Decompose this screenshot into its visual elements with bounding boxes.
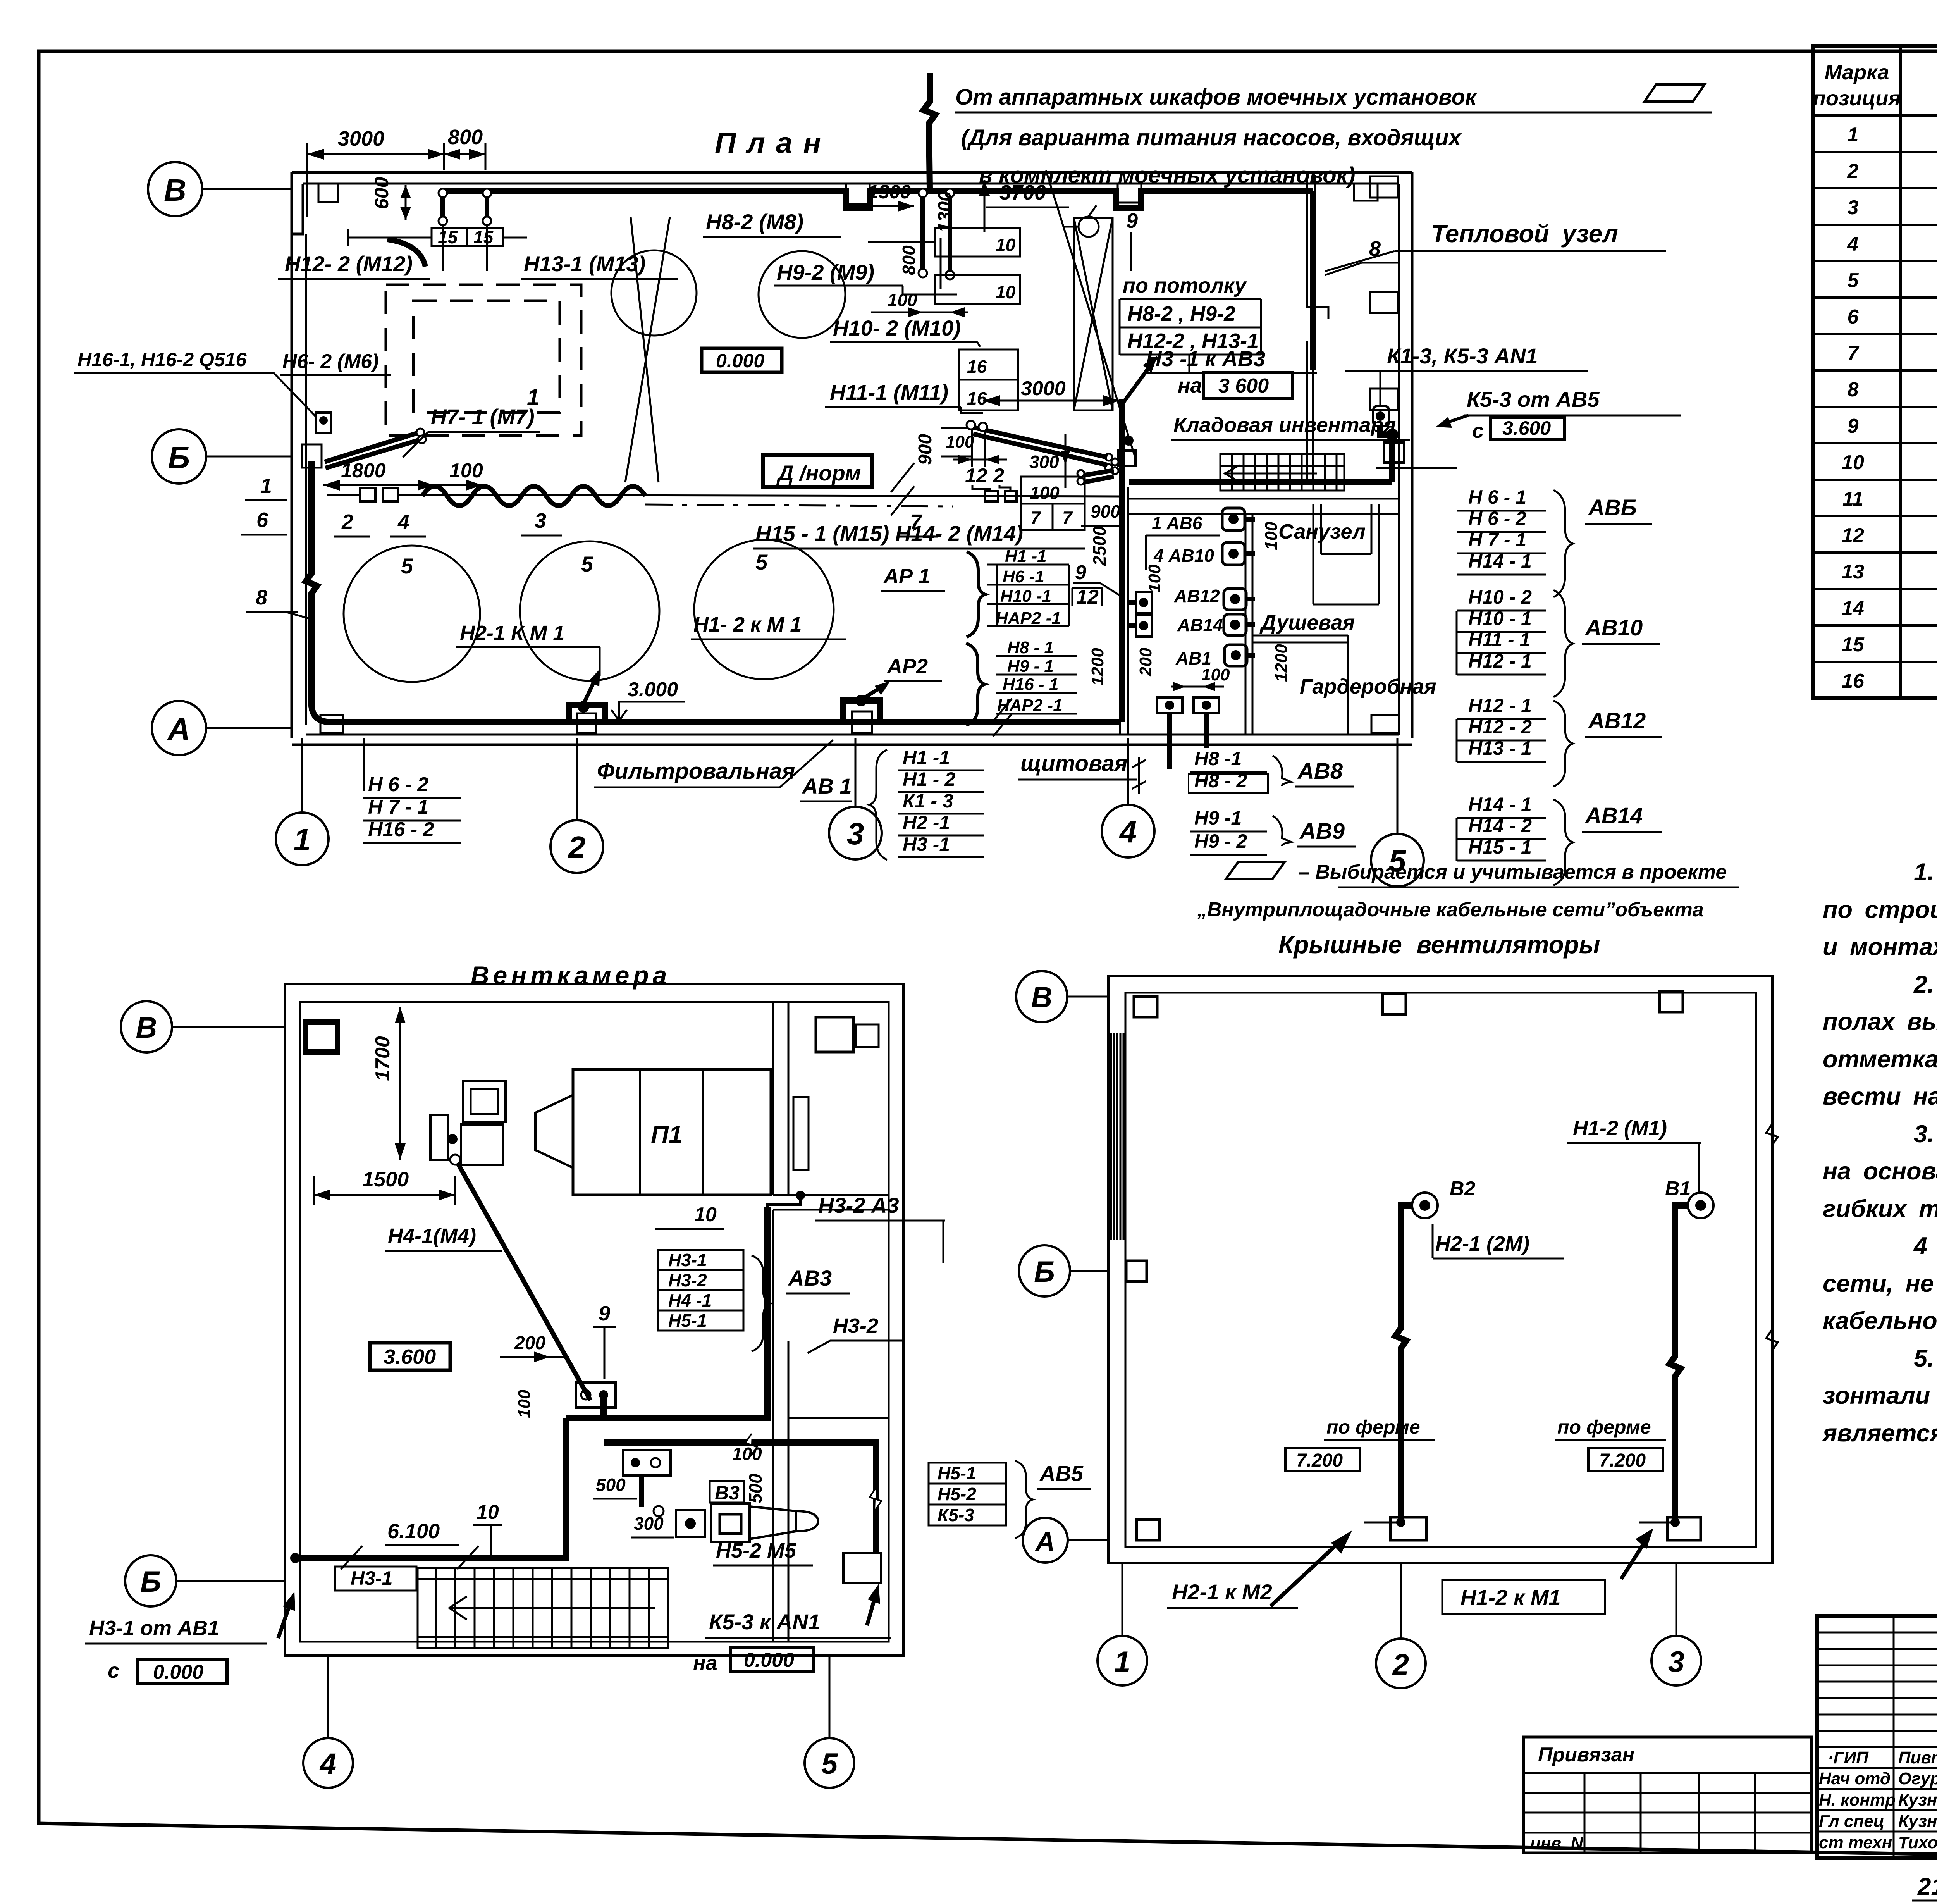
svg-text:13: 13 — [1842, 561, 1864, 583]
kladovaya walls — [1128, 498, 1399, 500]
svg-text:11: 11 — [1842, 488, 1863, 510]
svg-text:Н 6 - 2: Н 6 - 2 — [368, 773, 428, 796]
svg-text:1 АВ6: 1 АВ6 — [1152, 513, 1202, 533]
cable kladovaya — [1129, 425, 1392, 482]
svg-text:1200: 1200 — [1088, 648, 1107, 686]
thick cable right vertical — [1310, 191, 1316, 370]
svg-text:Н9 - 1: Н9 - 1 — [1007, 657, 1054, 676]
svg-text:2. Раскладку труб для элек: 2. Раскладку труб для электропроводок в — [1913, 971, 1937, 998]
svg-text:·ГИП: ·ГИП — [1828, 1748, 1869, 1767]
svg-text:5: 5 — [1848, 269, 1859, 292]
svg-text:3 600: 3 600 — [1218, 375, 1269, 397]
svg-text:Н2-1 (2М): Н2-1 (2М) — [1435, 1232, 1529, 1255]
top-left wall stub — [292, 172, 303, 234]
svg-text:15: 15 — [473, 227, 494, 247]
AB6 right stack — [1468, 486, 1532, 572]
svg-text:4: 4 — [319, 1747, 336, 1780]
cable drop pair 1 — [443, 194, 487, 219]
svg-text:16: 16 — [1842, 670, 1865, 692]
cable down left — [295, 1418, 566, 1558]
svg-text:АВ14: АВ14 — [1584, 803, 1643, 828]
svg-text:План: План — [715, 127, 832, 160]
sanuzel inner walls — [1313, 504, 1379, 604]
elbow — [387, 239, 425, 267]
svg-text:6: 6 — [256, 508, 268, 532]
svg-text:инв. N: инв. N — [1530, 1834, 1583, 1853]
svg-text:5: 5 — [755, 550, 768, 574]
svg-text:8: 8 — [1848, 379, 1859, 401]
pinch mark — [891, 463, 914, 515]
bubble 3 roof — [1651, 1636, 1701, 1685]
N mark — [1132, 757, 1146, 794]
teplo uzel left wall — [1307, 175, 1328, 319]
svg-text:В: В — [1031, 981, 1053, 1014]
svg-text:Н3-1 от АВ1: Н3-1 от АВ1 — [89, 1617, 219, 1640]
svg-text:АВ12: АВ12 — [1174, 586, 1220, 606]
svg-text:Н8 - 1: Н8 - 1 — [1007, 638, 1054, 657]
svg-text:Н9-2 (М9): Н9-2 (М9) — [777, 260, 874, 284]
bottom cable pilaster jogs — [569, 701, 880, 722]
bubble 5 vent — [805, 1738, 854, 1788]
svg-text:Гл спец: Гл спец — [1819, 1812, 1884, 1831]
svg-text:3: 3 — [847, 816, 864, 851]
svg-text:4: 4 — [1847, 233, 1859, 255]
svg-text:Тепловой узел: Тепловой узел — [1431, 220, 1618, 248]
svg-text:позиция: позиция — [1813, 87, 1901, 110]
svg-text:7: 7 — [1848, 342, 1860, 365]
teplo uzel pilasters — [1370, 176, 1398, 198]
svg-text:Н1 - 2: Н1 - 2 — [903, 768, 955, 790]
svg-text:Н6 -1: Н6 -1 — [1003, 567, 1044, 586]
svg-text:1300: 1300 — [868, 181, 911, 203]
svg-text:3: 3 — [1668, 1646, 1684, 1678]
bottom wall — [292, 744, 1412, 746]
bubble 3 plan — [829, 807, 882, 859]
bubble B vent — [121, 1001, 172, 1052]
svg-text:Н 7 - 1: Н 7 - 1 — [368, 796, 428, 818]
connector labels — [1152, 513, 1223, 668]
svg-text:4 Электрооборудование и соо: 4 Электрооборудование и соответствующие — [1913, 1233, 1937, 1260]
svg-text:9: 9 — [1848, 415, 1859, 437]
grid bubble B plan — [148, 162, 202, 216]
grid bubble Б roof — [1019, 1245, 1070, 1296]
svg-text:3: 3 — [535, 509, 546, 532]
svg-text:Огурцов: Огурцов — [1898, 1769, 1937, 1788]
svg-text:с: с — [1472, 419, 1484, 442]
svg-text:Н1 -1: Н1 -1 — [903, 747, 950, 768]
thin leader line — [399, 495, 1120, 496]
svg-text:АВ10: АВ10 — [1584, 615, 1643, 640]
svg-text:Н11-1 (М11): Н11-1 (М11) — [830, 380, 948, 405]
svg-text:4: 4 — [397, 510, 409, 534]
svg-text:АВ3: АВ3 — [788, 1266, 832, 1290]
svg-text:Н12 - 1: Н12 - 1 — [1468, 695, 1532, 716]
bottom right cable box — [843, 1553, 881, 1583]
feeder cable drop — [924, 73, 935, 189]
wavy flexible cable — [422, 486, 645, 506]
svg-text:100: 100 — [1262, 522, 1281, 550]
svg-text:Душевая: Душевая — [1259, 611, 1355, 634]
bubble 5 plan — [1371, 834, 1424, 887]
crossed circle fan — [611, 250, 697, 336]
svg-text:по потолку: по потолку — [1123, 274, 1247, 297]
svg-text:А: А — [167, 712, 190, 746]
P1 air unit — [573, 1069, 771, 1195]
svg-text:3.600: 3.600 — [384, 1345, 436, 1369]
svg-text:Кузнецов: Кузнецов — [1898, 1790, 1937, 1809]
svg-text:0.000: 0.000 — [744, 1649, 794, 1672]
svg-text:АВ14: АВ14 — [1177, 615, 1223, 635]
svg-text:1: 1 — [1114, 1646, 1130, 1678]
partition horizontal — [773, 1194, 889, 1196]
svg-text:8: 8 — [1369, 237, 1381, 260]
grid bubble А roof — [1023, 1518, 1068, 1563]
svg-text:16: 16 — [967, 356, 987, 377]
title block outer — [1817, 1616, 1937, 1858]
sanuzel partition vertical — [1245, 514, 1247, 735]
fan circle M9 — [759, 251, 845, 338]
crossed tall rect — [1074, 218, 1113, 410]
svg-text:„Внутриплощадочные кабельные с: „Внутриплощадочные кабельные сети”объект… — [1197, 899, 1704, 921]
roof plan inner wall — [1125, 993, 1756, 1547]
svg-text:Н2-1 К М 1: Н2-1 К М 1 — [460, 621, 564, 645]
svg-text:2: 2 — [1847, 160, 1859, 182]
cable diagonal — [450, 1155, 460, 1165]
roof plan outer wall — [1108, 976, 1772, 1563]
svg-text:Н. контр: Н. контр — [1819, 1790, 1896, 1809]
right partition wall — [772, 1002, 774, 1195]
dushevaya partition — [1252, 635, 1348, 735]
small boxes pair — [1136, 592, 1152, 613]
svg-text:Н10- 2 (М10): Н10- 2 (М10) — [833, 316, 961, 340]
16 boxes — [959, 349, 1018, 410]
svg-text:на основании серии 5407-7: на основании серии 5407-7 „Устройство ко… — [1823, 1158, 1937, 1185]
svg-text:АР2: АР2 — [886, 655, 928, 678]
svg-text:9: 9 — [1126, 209, 1138, 232]
Б row pilaster — [302, 444, 322, 468]
kladovaya ladder — [1220, 454, 1344, 491]
svg-text:800: 800 — [899, 245, 919, 275]
svg-text:12: 12 — [1076, 586, 1099, 608]
svg-text:В2: В2 — [1450, 1178, 1476, 1200]
svg-text:12: 12 — [1842, 524, 1864, 547]
svg-text:1: 1 — [260, 474, 272, 498]
svg-text:К5-3 к АN1: К5-3 к АN1 — [709, 1610, 820, 1634]
svg-text:Н3 -1 к АВ3: Н3 -1 к АВ3 — [1146, 346, 1265, 371]
dashdot ceiling line — [645, 504, 953, 506]
svg-text:В: В — [136, 1011, 157, 1044]
svg-text:100: 100 — [946, 432, 974, 451]
svg-text:12 2: 12 2 — [965, 465, 1004, 487]
svg-text:АВ8: АВ8 — [1297, 759, 1343, 784]
svg-text:Н13-1 (М13): Н13-1 (М13) — [524, 251, 645, 276]
bottom wall connector boxes — [1157, 697, 1182, 713]
svg-text:на: на — [1178, 374, 1202, 397]
svg-text:К1-3, К5-3 АN1: К1-3, К5-3 АN1 — [1387, 344, 1538, 368]
svg-text:Н4 -1: Н4 -1 — [668, 1290, 712, 1310]
svg-text:1: 1 — [294, 822, 311, 857]
svg-text:вести на 100мм над отметк: вести на 100мм над отметкой чистого пола — [1823, 1083, 1937, 1110]
svg-text:21179-03 8: 21179-03 8 — [1917, 1873, 1937, 1900]
big tank circles — [344, 546, 480, 682]
svg-text:100: 100 — [1201, 665, 1230, 684]
svg-text:0.000: 0.000 — [716, 350, 764, 372]
svg-text:Н7- 1 (М7): Н7- 1 (М7) — [431, 405, 535, 429]
AB14 right stack — [1468, 794, 1532, 858]
cable to AZ box — [767, 1195, 800, 1207]
shchitovaya connector boxes — [1222, 508, 1247, 666]
svg-text:Н12- 2 (М12): Н12- 2 (М12) — [285, 251, 413, 276]
svg-text:по ферме: по ферме — [1557, 1416, 1651, 1438]
svg-text:4: 4 — [1119, 814, 1137, 849]
svg-text:0.000: 0.000 — [153, 1661, 203, 1684]
cable drop pair 2 — [923, 194, 950, 271]
svg-text:Н6- 2 (М6): Н6- 2 (М6) — [282, 350, 378, 373]
svg-text:Н8 -1: Н8 -1 — [1194, 748, 1242, 770]
right wall break marks — [1766, 1124, 1778, 1146]
svg-text:100: 100 — [449, 460, 483, 482]
svg-text:АР 1: АР 1 — [883, 565, 930, 588]
svg-text:Н9 -1: Н9 -1 — [1194, 807, 1242, 829]
svg-text:Н5-2 М5: Н5-2 М5 — [716, 1539, 796, 1562]
B3 fan unit — [654, 1506, 664, 1516]
bubble 2 roof — [1376, 1639, 1426, 1688]
AB12 right stack — [1468, 695, 1532, 759]
svg-text:по строительным конструкция: по строительным конструкциям, выполнить … — [1823, 896, 1937, 923]
svg-text:АВ9: АВ9 — [1299, 819, 1345, 844]
svg-text:– Выбирается и учитывается в п: – Выбирается и учитывается в проекте — [1299, 861, 1727, 883]
svg-text:на: на — [693, 1651, 717, 1675]
svg-text:16: 16 — [967, 388, 987, 408]
svg-text:900: 900 — [915, 434, 936, 465]
stairs — [418, 1568, 668, 1648]
thick cable shchitovaya riser — [1119, 399, 1125, 722]
svg-text:и монтажной полосой с шаг: и монтажной полосой с шагом не более 800… — [1823, 933, 1937, 961]
ventkamera outer wall — [285, 984, 903, 1656]
svg-text:3. Питание гибкого токоподв: 3. Питание гибкого токоподвода выполнить — [1914, 1121, 1937, 1148]
svg-text:2500: 2500 — [1089, 526, 1110, 566]
svg-text:Тихонов: Тихонов — [1898, 1833, 1937, 1852]
pilaster squares — [1126, 992, 1701, 1540]
dashed rect outer — [386, 285, 581, 436]
diagonal cable pair to B — [325, 433, 417, 462]
svg-text:5: 5 — [581, 552, 593, 576]
svg-text:Н9 - 2: Н9 - 2 — [1194, 830, 1247, 852]
svg-text:500: 500 — [596, 1475, 626, 1495]
top wall pilasters — [318, 184, 338, 202]
3.600 box — [370, 1343, 450, 1370]
cable horizontal — [566, 1207, 767, 1418]
svg-text:200: 200 — [1136, 647, 1155, 677]
svg-text:Н3-2 А3: Н3-2 А3 — [818, 1193, 899, 1217]
svg-text:1800: 1800 — [341, 460, 386, 482]
svg-text:100: 100 — [732, 1444, 762, 1464]
svg-text:3.000: 3.000 — [628, 678, 678, 701]
svg-text:5: 5 — [401, 554, 413, 578]
svg-text:Н8 - 2: Н8 - 2 — [1194, 770, 1247, 792]
label H3-1 — [335, 1567, 416, 1591]
svg-text:Б: Б — [140, 1565, 161, 1598]
svg-text:Н5-1: Н5-1 — [938, 1463, 976, 1483]
AB1 stack — [869, 750, 887, 860]
svg-text:14: 14 — [1842, 597, 1864, 620]
stack H6-2 H7-1 H16-2 — [368, 773, 434, 841]
svg-text:Н8-2 (М8): Н8-2 (М8) — [706, 210, 803, 234]
svg-text:Н2 -1: Н2 -1 — [903, 812, 950, 833]
cable tail boxes — [360, 488, 375, 501]
svg-text:Б: Б — [168, 440, 190, 475]
svg-text:Марка: Марка — [1825, 61, 1889, 84]
svg-text:Гардеробная: Гардеробная — [1300, 675, 1436, 698]
svg-text:500: 500 — [745, 1474, 766, 1503]
svg-text:800: 800 — [448, 126, 483, 149]
label H1-2 kM1 — [1442, 1580, 1605, 1614]
svg-text:1300: 1300 — [935, 191, 955, 232]
AB5 stack — [929, 1463, 1006, 1525]
legend parallelogram — [1226, 862, 1285, 879]
svg-text:Кузнецов: Кузнецов — [1898, 1812, 1937, 1831]
svg-text:7: 7 — [1030, 508, 1041, 528]
dashed rect inner — [413, 301, 560, 413]
svg-text:4 АВ10: 4 АВ10 — [1153, 546, 1214, 566]
junction box — [576, 1382, 616, 1408]
svg-text:2: 2 — [341, 510, 353, 534]
svg-text:9: 9 — [1075, 561, 1086, 584]
bubble 2 plan — [550, 820, 603, 873]
svg-text:Н16 - 2: Н16 - 2 — [368, 818, 434, 841]
svg-text:А: А — [1035, 1527, 1055, 1557]
top right boxes — [816, 1017, 853, 1052]
svg-text:АВ5: АВ5 — [1039, 1461, 1084, 1486]
svg-text:АВБ: АВБ — [1588, 495, 1637, 520]
svg-text:К1 - 3: К1 - 3 — [903, 790, 953, 812]
svg-text:2: 2 — [568, 830, 586, 864]
svg-text:7: 7 — [1062, 508, 1073, 528]
svg-text:сети, не используемые при: сети, не используемые при привязке, на п… — [1823, 1270, 1937, 1297]
svg-text:Н3 -1: Н3 -1 — [903, 833, 950, 855]
svg-text:10: 10 — [1842, 451, 1864, 474]
svg-text:П1: П1 — [651, 1121, 683, 1148]
svg-text:Санузел: Санузел — [1278, 520, 1366, 543]
svg-text:3: 3 — [1848, 196, 1859, 219]
svg-text:ст техн: ст техн — [1819, 1833, 1892, 1852]
svg-text:900: 900 — [1091, 501, 1120, 522]
svg-text:Н1- 2 к М 1: Н1- 2 к М 1 — [693, 613, 802, 636]
bubble 1 roof — [1098, 1636, 1147, 1685]
svg-text:отметках минус 100мм , 35: отметках минус 100мм , 3550мм , концы тр… — [1823, 1046, 1937, 1073]
svg-text:по ферме: по ферме — [1326, 1416, 1420, 1438]
svg-text:Н1-2 (М1): Н1-2 (М1) — [1573, 1117, 1667, 1140]
svg-text:В: В — [164, 173, 186, 207]
100 7 7 table — [1021, 477, 1085, 504]
bubble 4 plan — [1102, 805, 1154, 857]
svg-text:8: 8 — [256, 586, 267, 609]
svg-text:НАР2 -1: НАР2 -1 — [997, 696, 1063, 715]
thick cable left wall — [306, 461, 1120, 722]
svg-text:1: 1 — [1848, 124, 1859, 146]
svg-text:3700: 3700 — [999, 181, 1046, 204]
ventkamera inner wall — [300, 1002, 889, 1642]
svg-text:Н2-1 к М2: Н2-1 к М2 — [1172, 1580, 1272, 1604]
branch box — [623, 1450, 671, 1475]
svg-text:Н3-1: Н3-1 — [351, 1567, 392, 1589]
svg-text:Кладовая инвентаря: Кладовая инвентаря — [1173, 413, 1396, 437]
bubble 1 plan — [276, 813, 329, 865]
svg-text:гибких токоподводов к элект: гибких токоподводов к электроталям“. — [1823, 1195, 1937, 1222]
svg-text:с: с — [108, 1659, 119, 1682]
svg-text:Н8-2 , Н9-2: Н8-2 , Н9-2 — [1127, 302, 1235, 325]
svg-text:(Для варианта питания насосов,: (Для варианта питания насосов, входящих — [961, 125, 1462, 150]
K1-3 connector boxes — [1373, 406, 1389, 426]
left wall — [291, 234, 293, 738]
signature rows — [1817, 1767, 1937, 1769]
svg-text:Крышные вентиляторы: Крышные вентиляторы — [1278, 931, 1600, 959]
svg-text:АВ12: АВ12 — [1588, 708, 1646, 733]
svg-text:АВ 1: АВ 1 — [802, 774, 852, 798]
svg-text:Н10 -1: Н10 -1 — [1000, 587, 1051, 606]
svg-text:Н 6 - 1: Н 6 - 1 — [1468, 486, 1526, 508]
AB10 right stack — [1468, 586, 1532, 672]
table grid — [1813, 46, 1937, 698]
wall hatch left — [1111, 1033, 1123, 1240]
10 boxes — [935, 228, 1020, 257]
bottom wall pilasters — [320, 715, 343, 733]
connector cluster — [1105, 454, 1112, 461]
building top wall — [292, 171, 1412, 174]
svg-text:6.100: 6.100 — [387, 1520, 440, 1543]
svg-text:щитовая: щитовая — [1020, 751, 1128, 776]
svg-text:1. Крепление электрокабелей,: 1. Крепление электрокабелей, прокладывае… — [1914, 859, 1937, 886]
svg-text:Н4-1(М4): Н4-1(М4) — [388, 1224, 476, 1248]
svg-text:9: 9 — [599, 1302, 610, 1325]
svg-text:Н1-2 к М1: Н1-2 к М1 — [1460, 1585, 1561, 1610]
svg-text:300: 300 — [634, 1513, 664, 1534]
thick cable top — [443, 191, 1313, 208]
svg-text:10: 10 — [477, 1501, 499, 1524]
svg-text:К5-3: К5-3 — [938, 1505, 974, 1525]
diagonal cables right — [973, 427, 1107, 457]
svg-text:Б: Б — [1034, 1255, 1055, 1288]
grid bubble Б plan — [152, 429, 206, 484]
svg-text:Н3-1: Н3-1 — [668, 1250, 707, 1270]
stack H3-1..H5-1 — [658, 1250, 743, 1331]
bubble Б vent — [125, 1555, 176, 1606]
svg-text:7.200: 7.200 — [1599, 1450, 1646, 1471]
svg-text:1700: 1700 — [372, 1036, 394, 1081]
svg-text:100: 100 — [1030, 483, 1060, 503]
svg-text:зонтали от краев безнапорны: зонтали от краев безнапорных гидроциклон… — [1823, 1382, 1937, 1409]
svg-text:Н3-2: Н3-2 — [668, 1270, 707, 1290]
svg-text:10: 10 — [996, 282, 1016, 302]
svg-text:Н10 - 2: Н10 - 2 — [1468, 586, 1532, 608]
grid bubble В roof — [1016, 971, 1067, 1022]
svg-text:100: 100 — [1145, 564, 1164, 593]
svg-text:7.200: 7.200 — [1296, 1450, 1343, 1471]
svg-text:1200: 1200 — [1272, 644, 1291, 682]
svg-text:15: 15 — [438, 227, 458, 247]
svg-text:К5-3 от АВ5: К5-3 от АВ5 — [1467, 387, 1600, 411]
svg-text:Н3-2: Н3-2 — [833, 1314, 878, 1338]
svg-text:Фильтровальная: Фильтровальная — [597, 759, 795, 784]
svg-text:10: 10 — [996, 235, 1016, 255]
svg-text:НАР2 -1: НАР2 -1 — [996, 609, 1061, 628]
bubble 4 vent — [303, 1738, 353, 1788]
svg-text:Н16 - 1: Н16 - 1 — [1003, 675, 1058, 694]
svg-text:100: 100 — [515, 1389, 534, 1418]
svg-text:От аппаратных шкафов моечных у: От аппаратных шкафов моечных установок — [955, 84, 1478, 110]
svg-text:В1: В1 — [1665, 1178, 1691, 1200]
svg-text:является пожароопасной кла: является пожароопасной класса П-I. — [1822, 1420, 1937, 1447]
